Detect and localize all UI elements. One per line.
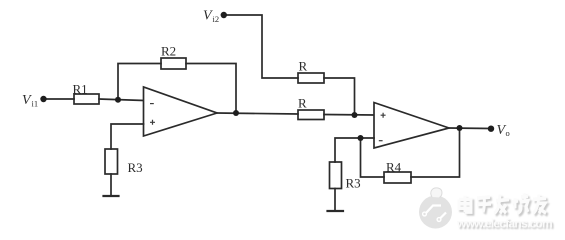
svg-text:R: R <box>298 96 307 111</box>
svg-text:R3: R3 <box>128 160 143 175</box>
svg-text:R4: R4 <box>386 160 402 175</box>
svg-text:www.elecfans.com: www.elecfans.com <box>456 217 552 231</box>
svg-text:R2: R2 <box>161 44 176 59</box>
svg-text:R: R <box>299 59 308 74</box>
svg-text:o: o <box>506 128 510 138</box>
svg-text:V: V <box>203 9 213 24</box>
svg-text:V: V <box>22 93 32 108</box>
svg-text:R1: R1 <box>73 82 88 97</box>
svg-text:i1: i1 <box>32 99 39 109</box>
svg-text:i2: i2 <box>213 14 220 24</box>
svg-text:R3: R3 <box>346 176 361 191</box>
